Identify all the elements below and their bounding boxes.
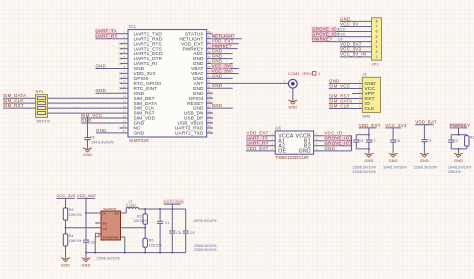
svg-text:C7: C7 bbox=[371, 139, 376, 143]
svg-text:UART_RX: UART_RX bbox=[96, 34, 118, 39]
svg-text:2.2uH: 2.2uH bbox=[126, 204, 136, 208]
svg-text:GND: GND bbox=[299, 149, 311, 155]
svg-text:GND: GND bbox=[134, 131, 145, 136]
svg-text:VCC_5V_IN: VCC_5V_IN bbox=[340, 52, 366, 57]
svg-text:104 6.3V/10%: 104 6.3V/10% bbox=[91, 141, 115, 145]
svg-text:SIM_RST: SIM_RST bbox=[3, 103, 24, 108]
svg-text:GND: GND bbox=[325, 146, 336, 151]
svg-text:GND: GND bbox=[83, 153, 92, 157]
svg-text:C8: C8 bbox=[395, 139, 400, 143]
svg-text:U1: U1 bbox=[276, 125, 282, 130]
svg-text:GND: GND bbox=[212, 73, 223, 78]
svg-text:10K/1%: 10K/1% bbox=[69, 213, 83, 217]
svg-text:GND: GND bbox=[96, 128, 107, 133]
svg-text:R5: R5 bbox=[149, 239, 154, 243]
svg-text:G26: G26 bbox=[338, 32, 345, 36]
svg-text:UART2_TXD: UART2_TXD bbox=[175, 131, 204, 136]
svg-text:RP1: RP1 bbox=[36, 89, 45, 94]
svg-text:226/6.3V/10%: 226/6.3V/10% bbox=[353, 165, 377, 169]
svg-text:7: 7 bbox=[376, 25, 378, 29]
svg-text:R4: R4 bbox=[69, 234, 74, 238]
svg-text:GND: GND bbox=[420, 159, 429, 163]
svg-text:GND: GND bbox=[288, 106, 297, 110]
svg-text:C3: C3 bbox=[426, 139, 431, 143]
svg-text:C2: C2 bbox=[453, 139, 458, 143]
svg-text:IPEX: IPEX bbox=[303, 72, 313, 76]
svg-text:10P/6.3V/10%: 10P/6.3V/10% bbox=[193, 219, 217, 223]
svg-text:VDD_BAT: VDD_BAT bbox=[77, 193, 97, 198]
svg-text:10K/1%: 10K/1% bbox=[448, 170, 462, 174]
svg-text:IN: IN bbox=[103, 212, 106, 216]
svg-text:SIM: SIM bbox=[362, 114, 370, 119]
svg-text:1: 1 bbox=[318, 72, 320, 76]
svg-text:226/6.3V/10%: 226/6.3V/10% bbox=[414, 165, 438, 169]
svg-text:SGND: SGND bbox=[111, 236, 119, 240]
svg-text:GND: GND bbox=[454, 159, 463, 163]
svg-text:FB: FB bbox=[103, 227, 107, 231]
svg-text:15K/1%: 15K/1% bbox=[69, 239, 83, 243]
svg-text:VDD_EXT: VDD_EXT bbox=[359, 123, 381, 128]
svg-text:PWRKEY: PWRKEY bbox=[450, 123, 471, 128]
svg-text:GND: GND bbox=[81, 118, 92, 123]
svg-text:226/6.3V/10%: 226/6.3V/10% bbox=[97, 257, 121, 261]
svg-text:R2: R2 bbox=[137, 214, 142, 218]
svg-text:104/6.3V/10%: 104/6.3V/10% bbox=[448, 165, 472, 169]
svg-text:GND: GND bbox=[96, 63, 107, 68]
svg-text:226/6.3V/10%: 226/6.3V/10% bbox=[194, 248, 218, 252]
svg-text:SGM6036: SGM6036 bbox=[103, 207, 116, 211]
svg-text:SW: SW bbox=[114, 212, 119, 216]
svg-text:GND: GND bbox=[389, 159, 398, 163]
svg-text:C9: C9 bbox=[190, 231, 195, 235]
svg-text:GND: GND bbox=[212, 103, 223, 108]
svg-text:VDD_BAT: VDD_BAT bbox=[415, 120, 437, 125]
svg-text:6: 6 bbox=[376, 30, 378, 34]
svg-text:VCC_3V8: VCC_3V8 bbox=[164, 199, 184, 204]
svg-text:VCC_3V3: VCC_3V3 bbox=[56, 193, 76, 198]
svg-text:C5: C5 bbox=[176, 231, 181, 235]
svg-text:8: 8 bbox=[376, 20, 378, 24]
svg-text:C10: C10 bbox=[88, 240, 95, 244]
svg-text:TXB0102DCUR: TXB0102DCUR bbox=[275, 155, 309, 160]
svg-text:GND: GND bbox=[61, 264, 70, 268]
svg-text:104/6.3V/10%: 104/6.3V/10% bbox=[353, 170, 377, 174]
svg-text:2: 2 bbox=[376, 50, 378, 54]
svg-text:C1: C1 bbox=[165, 221, 170, 225]
svg-text:4: 4 bbox=[376, 40, 378, 44]
svg-text:SIM_VCC: SIM_VCC bbox=[329, 83, 350, 88]
svg-text:GND: GND bbox=[96, 88, 107, 93]
svg-text:J1: J1 bbox=[363, 72, 368, 77]
svg-text:C4: C4 bbox=[358, 139, 363, 143]
svg-text:COM1: COM1 bbox=[288, 72, 300, 76]
svg-text:1: 1 bbox=[376, 55, 378, 59]
svg-text:GND: GND bbox=[364, 159, 373, 163]
svg-text:IC1: IC1 bbox=[129, 24, 137, 29]
svg-text:VCC_3V3: VCC_3V3 bbox=[385, 123, 407, 128]
svg-text:5: 5 bbox=[376, 35, 378, 39]
svg-text:R3: R3 bbox=[69, 208, 74, 212]
svg-text:GND: GND bbox=[81, 264, 90, 268]
svg-text:VDD_EXT: VDD_EXT bbox=[247, 146, 269, 151]
svg-text:EN: EN bbox=[103, 222, 107, 226]
svg-text:R1: R1 bbox=[470, 136, 474, 140]
svg-text:GND: GND bbox=[212, 83, 223, 88]
svg-text:SIM7020: SIM7020 bbox=[129, 138, 149, 143]
svg-text:12K3/1%: 12K3/1% bbox=[133, 219, 149, 223]
svg-text:C6: C6 bbox=[90, 135, 95, 139]
svg-text:PWRKEY: PWRKEY bbox=[312, 37, 333, 42]
svg-text:8R3/1%: 8R3/1% bbox=[37, 119, 51, 123]
svg-text:JP1: JP1 bbox=[372, 63, 379, 67]
svg-text:3: 3 bbox=[376, 45, 378, 49]
svg-text:104/6.3V/10%: 104/6.3V/10% bbox=[383, 165, 407, 169]
svg-text:CLK: CLK bbox=[364, 106, 375, 112]
svg-text:OE: OE bbox=[278, 149, 286, 155]
svg-text:SIM_CLK: SIM_CLK bbox=[329, 103, 350, 108]
svg-text:VCC_5V: VCC_5V bbox=[340, 21, 359, 26]
